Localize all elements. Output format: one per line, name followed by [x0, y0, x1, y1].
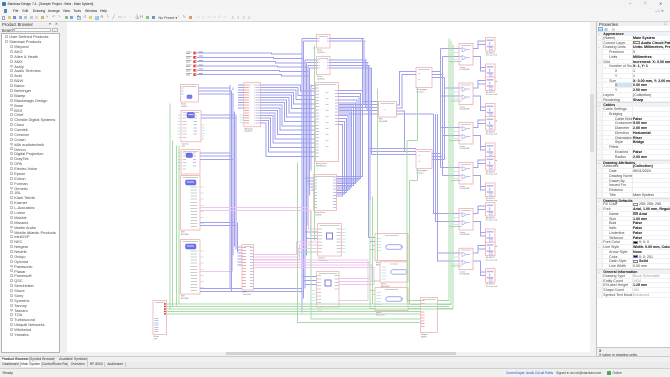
C cyan pin labels [177, 152, 180, 154]
projector glyph 1 [385, 244, 401, 248]
wire amp 5 to speakers [473, 206, 486, 214]
wire C outputs [200, 152, 230, 154]
svg-text:DCi 4|600N: DCi 4|600N [459, 108, 469, 110]
speaker U5b [485, 229, 495, 243]
block B2 [420, 297, 437, 332]
wire R2 outs [432, 152, 441, 154]
svg-text:BLU-806: BLU-806 [181, 233, 188, 235]
svg-text:DCi 4|600N: DCi 4|600N [459, 148, 469, 150]
status bar [0, 368, 670, 377]
wire amp 2 to speakers [473, 80, 486, 88]
wire V0 to P inputs [229, 84, 231, 87]
speaker U2a [485, 77, 495, 91]
block Q [378, 101, 396, 117]
projector P3 [375, 287, 408, 310]
wire T2 right outs [330, 58, 367, 60]
wire H left feeds [302, 275, 317, 277]
wire V0 to F inputs [237, 246, 242, 248]
glyph G [326, 233, 332, 239]
wire green amp 4 [451, 179, 459, 181]
svg-text:DCi 4|600N: DCi 4|600N [459, 69, 469, 71]
glyph C [186, 153, 193, 158]
right panel [596, 22, 670, 356]
media block F [242, 244, 254, 290]
amp U2 [459, 83, 473, 105]
speaker U1a [485, 37, 495, 51]
glyph H [325, 280, 331, 286]
block T1 [316, 34, 330, 48]
svg-text:BLU-BOB: BLU-BOB [379, 120, 388, 122]
cyan ticks amp 4 [454, 170, 458, 172]
cyan ticks amp 1 [454, 51, 458, 53]
wire right dist verticals [439, 48, 441, 167]
wire pink F-G risers [253, 242, 317, 255]
svg-text:Two-way Louds: Two-way Louds [485, 219, 497, 221]
block wireless-rx A [180, 84, 198, 102]
M inner text [325, 91, 328, 93]
amp U5 [459, 208, 473, 230]
speaker U6b [485, 268, 495, 282]
wire amp 6 to speakers [473, 245, 486, 253]
svg-text:Core 110f: Core 110f [242, 292, 251, 295]
svg-text:Two-way Louds: Two-way Louds [485, 54, 497, 56]
cyan tick T1 [312, 47, 316, 49]
glyph E [185, 244, 196, 249]
wire green projector feeds [369, 200, 371, 308]
block N [313, 174, 336, 210]
wire D blue outs [200, 221, 235, 223]
wire E blue outs [200, 287, 302, 289]
speaker U2b [485, 103, 495, 117]
matrix M [315, 82, 338, 161]
wire green misc [313, 45, 315, 240]
wire green right verticals [448, 38, 450, 300]
wire amp 4 to speakers [473, 160, 486, 168]
block mixer B [181, 110, 201, 141]
speaker U4a [485, 156, 495, 170]
cyan ticks amp 3 [454, 130, 458, 132]
cyan ticks amp 2 [454, 91, 458, 93]
wire green amp 6 [451, 265, 459, 267]
patch panel P [243, 82, 260, 126]
P cyan ticks [239, 114, 243, 116]
svg-text:EX-MOD: EX-MOD [314, 214, 322, 216]
amp U4 [459, 162, 473, 184]
block G [317, 223, 341, 256]
svg-text:QL1: QL1 [181, 145, 185, 147]
wire G blue left feeds [305, 231, 318, 233]
block dsp D [180, 175, 200, 230]
wire green amp 2 [451, 100, 459, 102]
wire M right staircase to N [336, 90, 362, 176]
wire green left verticals [169, 103, 171, 308]
left panel [0, 22, 66, 356]
svg-text:Stagebox: Stagebox [244, 129, 252, 132]
bottom tabs [0, 356, 670, 362]
svg-text:EB-L630U: EB-L630U [376, 314, 385, 316]
menu bar [0, 9, 670, 15]
wire: V1 riser bundle [301, 38, 303, 312]
wire green amp 1 [449, 60, 459, 62]
wire N left feeds [305, 177, 314, 179]
projector glyph 3 [385, 296, 401, 300]
speaker U5a [485, 202, 495, 216]
projector P1 [375, 233, 408, 260]
svg-text:BLU-806: BLU-806 [181, 297, 188, 299]
block dsp E [180, 239, 200, 294]
wire T1 left feeds [302, 37, 317, 39]
amp U6 [459, 248, 473, 270]
wire B outputs [201, 114, 235, 116]
G cyan right labels [342, 228, 346, 230]
projector P2 [380, 261, 408, 281]
speaker U3a [485, 116, 495, 130]
block proc C [181, 149, 200, 174]
wire green right loop elbows [376, 299, 449, 301]
speaker U1b [485, 64, 495, 78]
glyph B [187, 112, 195, 118]
wire V0 bundle verticals [229, 87, 231, 288]
wire pink long bundle [253, 260, 368, 301]
wire amp 1 to speakers [473, 41, 486, 49]
scrollbars [590, 22, 595, 356]
canvas [67, 22, 590, 352]
wire fan P to M [260, 84, 315, 90]
wire Q to lower amps [433, 114, 459, 214]
wire green R1 R2 tails [416, 87, 418, 140]
svg-text:Two-way Louds: Two-way Louds [485, 94, 497, 96]
wire E pink out [200, 270, 233, 272]
title bar [0, 0, 670, 9]
H cyan left labels [312, 289, 316, 291]
wire Q right outs [396, 71, 416, 105]
projector glyph 2 [390, 269, 406, 273]
wire T1 right outs [330, 37, 364, 39]
glyph D [185, 180, 196, 185]
svg-text:ULXD4Q: ULXD4Q [317, 78, 325, 80]
svg-text:DCi 4|600N: DCi 4|600N [459, 234, 469, 236]
amp U3 [459, 122, 473, 144]
P inner column [250, 84, 255, 125]
svg-text:Two-way Louds: Two-way Louds [485, 173, 497, 175]
cyan ticks amp 5 [454, 216, 458, 218]
wire G green feed [297, 251, 317, 253]
block H [316, 271, 339, 307]
wire: right riser bundle from T outputs [361, 38, 363, 101]
wire A outputs [198, 87, 230, 89]
svg-text:DTP: DTP [153, 338, 158, 340]
speaker U3b [485, 143, 495, 157]
wire amp 3 to speakers [473, 120, 486, 128]
svg-text:DCi 4|600N: DCi 4|600N [459, 188, 469, 190]
speaker U4b [485, 183, 495, 197]
svg-text:Two-way Louds: Two-way Louds [485, 200, 497, 202]
svg-text:ULXD4: ULXD4 [181, 105, 187, 107]
block R2 [416, 149, 432, 168]
speaker U6a [485, 242, 495, 256]
svg-text:SERVER-IO: SERVER-IO [316, 165, 327, 167]
wire M to Q [338, 103, 378, 105]
wire pink D to G top [200, 207, 318, 229]
wire T2 left feeds [305, 58, 317, 60]
wire green amp 3 [449, 139, 459, 141]
wire D pink out [200, 207, 233, 271]
wire green amp 5 [449, 225, 459, 227]
wire R1 outs [432, 70, 441, 72]
wire dist branches to amps [440, 47, 459, 49]
block R1 [416, 67, 432, 87]
glyph A [187, 95, 192, 99]
svg-text:DCi 4|600N: DCi 4|600N [459, 273, 469, 275]
cyan ticks amp 6 [454, 256, 458, 258]
svg-text:Two-way Louds: Two-way Louds [485, 259, 497, 261]
svg-text:ULXD4Q: ULXD4Q [317, 51, 325, 53]
amp U1 [459, 43, 473, 65]
wire green long horizontals [166, 303, 450, 305]
wire M top feeds [311, 84, 315, 86]
svg-text:M4250: M4250 [421, 336, 427, 338]
svg-text:Two-way Louds: Two-way Louds [485, 133, 497, 135]
block T2 [316, 56, 330, 74]
svg-text:Two-way Louds: Two-way Louds [485, 285, 497, 287]
block io bottom-left [153, 300, 167, 334]
wire riser into projector1 [368, 236, 375, 238]
B cyan pin labels [177, 114, 180, 116]
toolbar [0, 14, 670, 22]
wire: top stub feeds [185, 51, 191, 53]
